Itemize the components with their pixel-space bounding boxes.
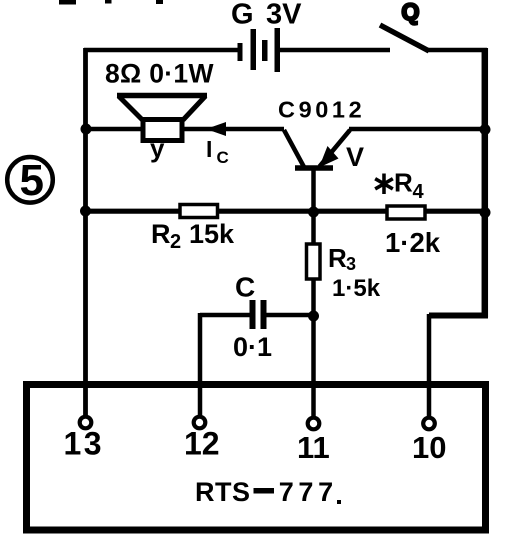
svg-text:2: 2	[170, 231, 181, 253]
svg-text:V: V	[346, 142, 364, 172]
svg-text:C: C	[235, 272, 255, 303]
svg-text:R: R	[394, 168, 413, 198]
wire battery to switch	[279, 48, 390, 53]
emitter lead	[320, 130, 351, 167]
svg-text:3V: 3V	[266, 0, 302, 31]
wire step down to terminal 10	[427, 314, 432, 416]
terminal 13	[80, 417, 92, 429]
junction dot right emitter row	[480, 124, 491, 135]
arrow Ic on collector wire	[206, 122, 226, 136]
wire left vertical	[83, 48, 88, 415]
svg-text:1·5k: 1·5k	[332, 275, 381, 302]
svg-text:4: 4	[413, 181, 425, 203]
svg-text:12: 12	[184, 426, 220, 462]
svg-text:Q: Q	[402, 0, 420, 25]
cropped text fragments at top edge	[59, 0, 76, 5]
junction dot left bias row	[80, 206, 91, 217]
IC box RTS-777	[27, 385, 486, 531]
wire main bias row	[84, 209, 486, 214]
svg-text:C9012: C9012	[278, 97, 365, 123]
capacitor C plates	[250, 300, 256, 329]
switch Q blade	[380, 25, 429, 51]
wire right vertical	[482, 48, 489, 317]
wire step horizontal	[429, 313, 488, 319]
junction dot left speaker row	[81, 124, 92, 135]
svg-text:RTS: RTS	[195, 477, 251, 507]
wire capacitor right	[266, 313, 314, 318]
svg-text:1·2k: 1·2k	[385, 227, 441, 258]
figure number circle 5	[7, 157, 53, 203]
svg-text:G: G	[231, 0, 254, 31]
terminal 10	[423, 418, 435, 430]
collector lead	[284, 130, 304, 167]
svg-text:5: 5	[20, 156, 44, 205]
resistor R2 body	[180, 205, 218, 218]
wire capacitor left	[200, 313, 252, 318]
svg-text:8Ω 0·1W: 8Ω 0·1W	[105, 59, 214, 89]
transistor V (C9012, PNP)	[284, 130, 350, 168]
svg-text:3: 3	[346, 254, 356, 274]
wire base column	[311, 168, 316, 417]
wire switch to right corner	[427, 48, 487, 53]
speaker Y	[117, 96, 207, 141]
terminal 11	[308, 418, 320, 430]
battery G	[238, 28, 281, 72]
wire emitter row	[349, 127, 485, 132]
svg-text:777: 777	[279, 477, 338, 507]
svg-text:y: y	[150, 133, 165, 163]
resistor R3 body	[307, 244, 321, 279]
junction dot base bias row	[308, 207, 319, 218]
svg-text:11: 11	[297, 430, 330, 465]
resistor R4 body	[387, 206, 425, 219]
terminal 12	[194, 417, 206, 429]
wire terminal 12	[198, 313, 203, 416]
wire top left horizontal	[84, 48, 239, 53]
junction dot capacitor node	[308, 311, 319, 322]
svg-text:C: C	[217, 148, 229, 167]
svg-text:R: R	[151, 219, 171, 249]
svg-text:10: 10	[412, 430, 446, 465]
emitter arrow	[319, 146, 339, 168]
svg-text:R: R	[328, 243, 347, 273]
svg-text:0·1: 0·1	[233, 332, 272, 362]
svg-text:13: 13	[64, 426, 105, 462]
wire speaker row	[86, 127, 284, 132]
svg-text:I: I	[206, 136, 212, 162]
svg-text:15k: 15k	[189, 219, 235, 249]
base bar	[295, 165, 333, 171]
junction dot right bias row	[480, 207, 491, 218]
